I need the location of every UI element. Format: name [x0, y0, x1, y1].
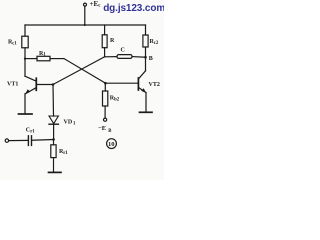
svg-text:10: 10	[108, 141, 115, 148]
transistor VT1	[35, 78, 37, 90]
svg-text:C: C	[121, 48, 125, 54]
svg-text:R: R	[110, 38, 115, 44]
wire VD1 to trigger node	[53, 124, 55, 139]
svg-text:VT1: VT1	[7, 81, 18, 87]
wire VT1 emitter down	[24, 94, 26, 114]
svg-text:+E: +E	[90, 0, 99, 8]
capacitor C	[117, 55, 132, 59]
terminal -EB	[104, 118, 107, 121]
wire R1 to VT2 base diagonal	[64, 59, 106, 84]
svg-text:B: B	[108, 129, 112, 134]
wire Rb2 to terminal	[104, 106, 106, 118]
wire R bottom	[104, 48, 106, 57]
resistor Rr1	[51, 145, 56, 158]
arrow VT1 emitter	[25, 89, 30, 94]
wire left rail upper	[24, 25, 26, 36]
wire VT2 collector diagonal	[138, 71, 145, 79]
svg-text:c: c	[98, 3, 101, 8]
junction +Ec on rail	[84, 24, 86, 26]
ground Rr1	[49, 171, 62, 173]
svg-text:−E: −E	[98, 125, 106, 132]
wire input to Cr1	[9, 139, 28, 141]
svg-text:b2: b2	[114, 97, 120, 102]
wire R1 right	[50, 58, 64, 60]
wire base node to Rb2	[104, 83, 106, 91]
junction R bottom	[104, 56, 106, 58]
wire +Ec to rail	[84, 6, 86, 25]
wire VT1 collector diagonal	[25, 76, 36, 81]
resistor Rc1	[22, 36, 28, 48]
svg-text:c2: c2	[154, 41, 159, 46]
terminal trigger input	[5, 139, 8, 142]
resistor Rb2	[103, 91, 108, 106]
svg-text:VD: VD	[64, 119, 73, 125]
wire VT1 base to VD1	[52, 85, 55, 117]
resistor R	[102, 35, 107, 48]
junction R1 on left rail	[24, 58, 26, 60]
junction node VT2 base	[104, 82, 107, 85]
wire Cr1 to trigger node	[32, 139, 54, 142]
svg-text:1: 1	[73, 121, 76, 126]
wire VT1 base to C diagonal	[53, 57, 105, 85]
svg-text:r1: r1	[30, 129, 35, 134]
resistor Rc2	[143, 35, 148, 47]
circled figure number 10	[107, 139, 117, 149]
svg-text:VT2: VT2	[149, 82, 160, 88]
wire top rail	[25, 24, 146, 26]
wire C left	[105, 56, 117, 58]
wire right rail lower	[145, 47, 147, 71]
wire right rail upper	[145, 25, 147, 35]
terminal +Ec	[84, 3, 87, 6]
ground VT2	[140, 111, 153, 113]
wire trigger node to Rr1	[53, 139, 55, 144]
capacitor Cr1	[27, 136, 29, 146]
wire C right to node B	[132, 56, 146, 59]
wire Rr1 to ground	[53, 158, 55, 172]
junction node trigger	[52, 138, 55, 141]
resistor R1	[37, 56, 50, 61]
wire left rail lower	[24, 48, 26, 76]
svg-text:dg.js123.com: dg.js123.com	[103, 3, 164, 14]
arrow VT2 emitter	[141, 88, 146, 93]
wire R1 left	[25, 58, 37, 60]
svg-text:c1: c1	[12, 42, 17, 47]
junction node B	[144, 56, 147, 59]
wire +Ec rail to R	[104, 25, 106, 35]
ground VT1	[19, 113, 33, 115]
wire VT2 emitter down	[145, 93, 147, 112]
transistor VT2	[137, 78, 139, 90]
svg-text:B: B	[149, 56, 153, 62]
junction node VT1 base	[52, 83, 55, 86]
svg-text:r1: r1	[63, 151, 68, 156]
diode VD1	[49, 116, 58, 124]
